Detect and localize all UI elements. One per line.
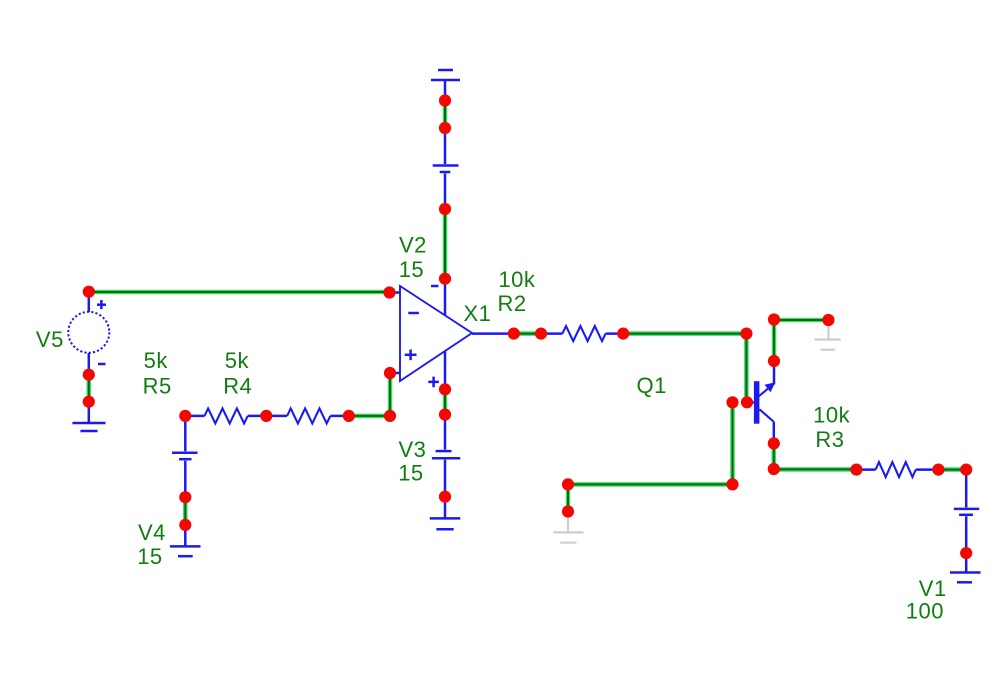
op-amp plus marker [405, 350, 417, 361]
junction [83, 369, 95, 381]
svg-text:5k: 5k [225, 348, 250, 373]
battery V4 [172, 416, 198, 497]
svg-text:V4: V4 [138, 520, 166, 545]
wire [938, 467, 966, 472]
junction [439, 203, 451, 215]
svg-text:100: 100 [906, 599, 944, 624]
label - (top supply) [431, 285, 439, 288]
junction [439, 408, 451, 420]
wire [87, 375, 92, 402]
svg-text:10k: 10k [498, 267, 535, 292]
battery V1 [954, 470, 979, 553]
ground (below V1) [950, 553, 981, 582]
wire (V5 to op-amp inverting input) [89, 290, 390, 295]
svg-text:R2: R2 [498, 291, 527, 316]
op-amp minus marker [408, 312, 419, 315]
junction [439, 122, 451, 134]
ground (gray, right) [814, 320, 840, 350]
svg-text:R3: R3 [815, 427, 844, 452]
svg-text:5k: 5k [144, 348, 169, 373]
svg-text:15: 15 [137, 544, 162, 569]
wire [568, 482, 733, 487]
wire [514, 331, 541, 336]
voltage source V5 [68, 292, 109, 375]
svg-text:X1: X1 [464, 301, 492, 326]
junction [179, 519, 191, 531]
svg-text:V5: V5 [36, 327, 64, 352]
junction [439, 383, 451, 395]
resistor R5 [185, 408, 266, 423]
junction (base pin) [741, 396, 753, 408]
wire (op-amp output) [472, 332, 514, 335]
junction (R4 right) [343, 410, 355, 422]
wire [566, 484, 571, 511]
junction (V5 +) [83, 286, 95, 298]
junction [960, 547, 972, 559]
junction [535, 328, 547, 340]
junction (non-inverting input) [384, 367, 396, 379]
svg-text:Q1: Q1 [637, 373, 667, 398]
label + (bottom supply) [428, 377, 439, 388]
wire [623, 331, 746, 336]
resistor R3 [856, 462, 938, 477]
junction [822, 314, 834, 326]
junction (corner) [740, 328, 752, 340]
battery V2 [433, 128, 459, 209]
svg-text:15: 15 [399, 257, 424, 282]
junction [562, 478, 574, 490]
ground (below V4) [170, 525, 201, 556]
junction (corner) [384, 410, 396, 422]
svg-text:R5: R5 [143, 374, 172, 399]
transistor Q1 [747, 361, 775, 443]
wire [443, 209, 448, 279]
junction (inverting input) [383, 286, 395, 298]
wire [388, 373, 393, 416]
wire [774, 467, 857, 472]
junction [439, 94, 451, 106]
wire [774, 318, 828, 323]
ground (below V5) [72, 402, 105, 431]
svg-text:15: 15 [398, 461, 423, 486]
resistor R2 [541, 326, 623, 341]
ground (below V3) [430, 497, 461, 530]
junction (corner, bottom row) [726, 478, 738, 490]
junction (collector) [768, 355, 780, 367]
junction (output) [508, 328, 520, 340]
op-amp U X1 triangle [400, 286, 472, 381]
junction (corner) [960, 464, 972, 476]
wire [349, 414, 390, 419]
pin non-inverting input [390, 372, 400, 375]
junction (emitter) [768, 437, 780, 449]
svg-text:V1: V1 [919, 576, 947, 601]
junction (R2 right) [617, 328, 629, 340]
pin V- of op-amp [444, 351, 447, 389]
junction (R3 right) [932, 464, 944, 476]
svg-text:V3: V3 [399, 437, 427, 462]
V5 plus sign [97, 300, 106, 309]
junction [83, 396, 95, 408]
V5 minus sign [98, 363, 106, 366]
junction (R5 left) [179, 410, 191, 422]
junction (op-amp V+ pin) [439, 273, 451, 285]
pin inverting input [390, 291, 401, 294]
ground (gray, bottom left) [553, 512, 584, 543]
junction (corner) [768, 313, 780, 325]
wire [443, 389, 448, 414]
junction (between R5 and R4) [260, 410, 272, 422]
junction [439, 491, 451, 503]
battery V3 [432, 415, 460, 497]
junction (R3 left) [850, 464, 862, 476]
wire [730, 402, 735, 484]
ground (flipped, top of V2 rail) [431, 70, 460, 95]
svg-text:R4: R4 [223, 374, 252, 399]
wire [772, 320, 777, 362]
wire [443, 101, 448, 129]
wire [744, 334, 749, 403]
svg-text:10k: 10k [813, 403, 850, 428]
junction (base node) [726, 396, 738, 408]
pin V+ of op-amp [444, 279, 447, 315]
wire [183, 497, 188, 525]
resistor R4 [266, 408, 349, 423]
wire [771, 443, 776, 469]
svg-text:V2: V2 [399, 232, 427, 257]
junction [768, 463, 780, 475]
junction [562, 505, 574, 517]
junction [179, 491, 191, 503]
